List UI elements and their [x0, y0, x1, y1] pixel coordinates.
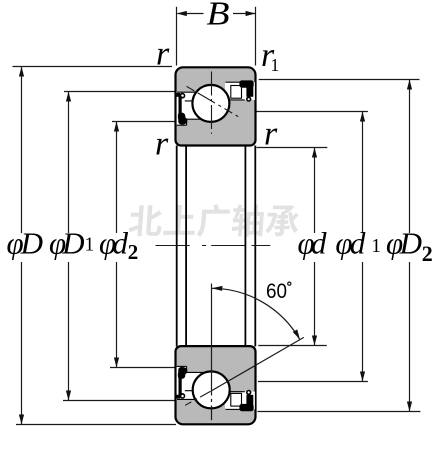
dim phid1 vertical: [362, 112, 364, 382]
svg-text:1: 1: [371, 236, 381, 257]
arrow phiD2 up: [407, 80, 412, 90]
svg-text:2: 2: [128, 240, 139, 264]
bore face lines between sections: [177, 146, 256, 347]
arrow phid1 up: [360, 112, 365, 122]
60 degree arc: [212, 288, 300, 339]
face line 3: [244, 146, 246, 347]
arrow phiD1 up: [66, 92, 71, 102]
ext phiD top: [13, 66, 173, 68]
right band edge lines: [224, 82, 245, 100]
arrow phid2 down: [114, 358, 119, 368]
svg-text:B: B: [207, 0, 230, 33]
right seal: [239, 80, 253, 87]
ext phid2 top: [112, 121, 176, 123]
watermark 北上广轴承: [128, 205, 300, 238]
ext phiD2 bottom: [257, 411, 420, 413]
dim phid vertical: [314, 148, 316, 346]
ext line B left: [176, 7, 178, 66]
ball top: [192, 85, 229, 122]
svg-text:r: r: [264, 116, 278, 153]
face line 1: [176, 146, 178, 347]
arrow phiD1 down: [66, 391, 71, 401]
bottom vertical reference line: [211, 284, 213, 421]
ext phid top: [257, 147, 328, 149]
ext phiD bottom: [16, 424, 176, 426]
ext line B right: [255, 7, 257, 66]
arrow phiD down: [19, 415, 24, 425]
svg-text:φd: φd: [99, 225, 129, 260]
svg-text:φD: φD: [7, 225, 44, 260]
arrow phid down: [312, 336, 317, 346]
ext phid1 bottom: [258, 381, 368, 383]
arc arrowhead left: [212, 286, 223, 291]
ext phiD2 top: [259, 79, 420, 81]
dim phiD vertical: [21, 67, 23, 425]
dim B line: [177, 13, 255, 15]
dim phiD1 vertical: [68, 92, 70, 401]
svg-text:φD: φD: [49, 225, 85, 260]
svg-text:60: 60: [266, 279, 287, 303]
arrow B right: [246, 11, 256, 16]
arrow phid up: [312, 148, 317, 158]
svg-text:1: 1: [271, 55, 280, 75]
ball bottom: [193, 371, 230, 408]
left groove white area: [177, 92, 206, 119]
ext phiD1 bottom: [63, 400, 176, 402]
svg-text:1: 1: [85, 235, 95, 256]
svg-text:φd: φd: [298, 225, 328, 260]
arrow B left: [177, 11, 187, 16]
dim phiD2 vertical: [409, 80, 411, 412]
face line 2: [185, 146, 187, 347]
horizontal axis centerline: [156, 245, 271, 247]
ext phiD1 top: [64, 91, 176, 93]
ext phid bottom: [258, 345, 327, 347]
dim phid2 vertical: [116, 122, 118, 368]
top ball diagonal centerline: [187, 86, 239, 116]
svg-text:φD: φD: [386, 225, 422, 260]
svg-text:2: 2: [422, 241, 433, 266]
bottom diagonal contact line solid: [211, 337, 303, 391]
bottom diagonal dash part: [185, 391, 211, 405]
right band white area: [225, 82, 255, 100]
arrow phid1 down: [360, 372, 365, 382]
ext phid2 bottom: [110, 367, 176, 369]
svg-text:r: r: [156, 36, 170, 73]
arrow phiD up: [19, 67, 24, 77]
bearing top cross-section block: [176, 67, 256, 145]
arrow phiD2 down: [407, 402, 412, 412]
bearing bottom cross-section block (mirror): [176, 346, 256, 424]
face line 4: [254, 146, 256, 347]
top ball vertical centerline: [211, 72, 213, 134]
arrow phid2 up: [114, 122, 119, 132]
svg-text:r: r: [155, 126, 169, 163]
left seal: [176, 93, 180, 97]
arc arrowhead on contact line: [293, 329, 300, 339]
left groove edge lines: [177, 92, 204, 125]
ext phid1 top: [257, 111, 368, 113]
svg-text:φd: φd: [335, 225, 366, 260]
outer ring + inner ring body: [176, 67, 256, 145]
